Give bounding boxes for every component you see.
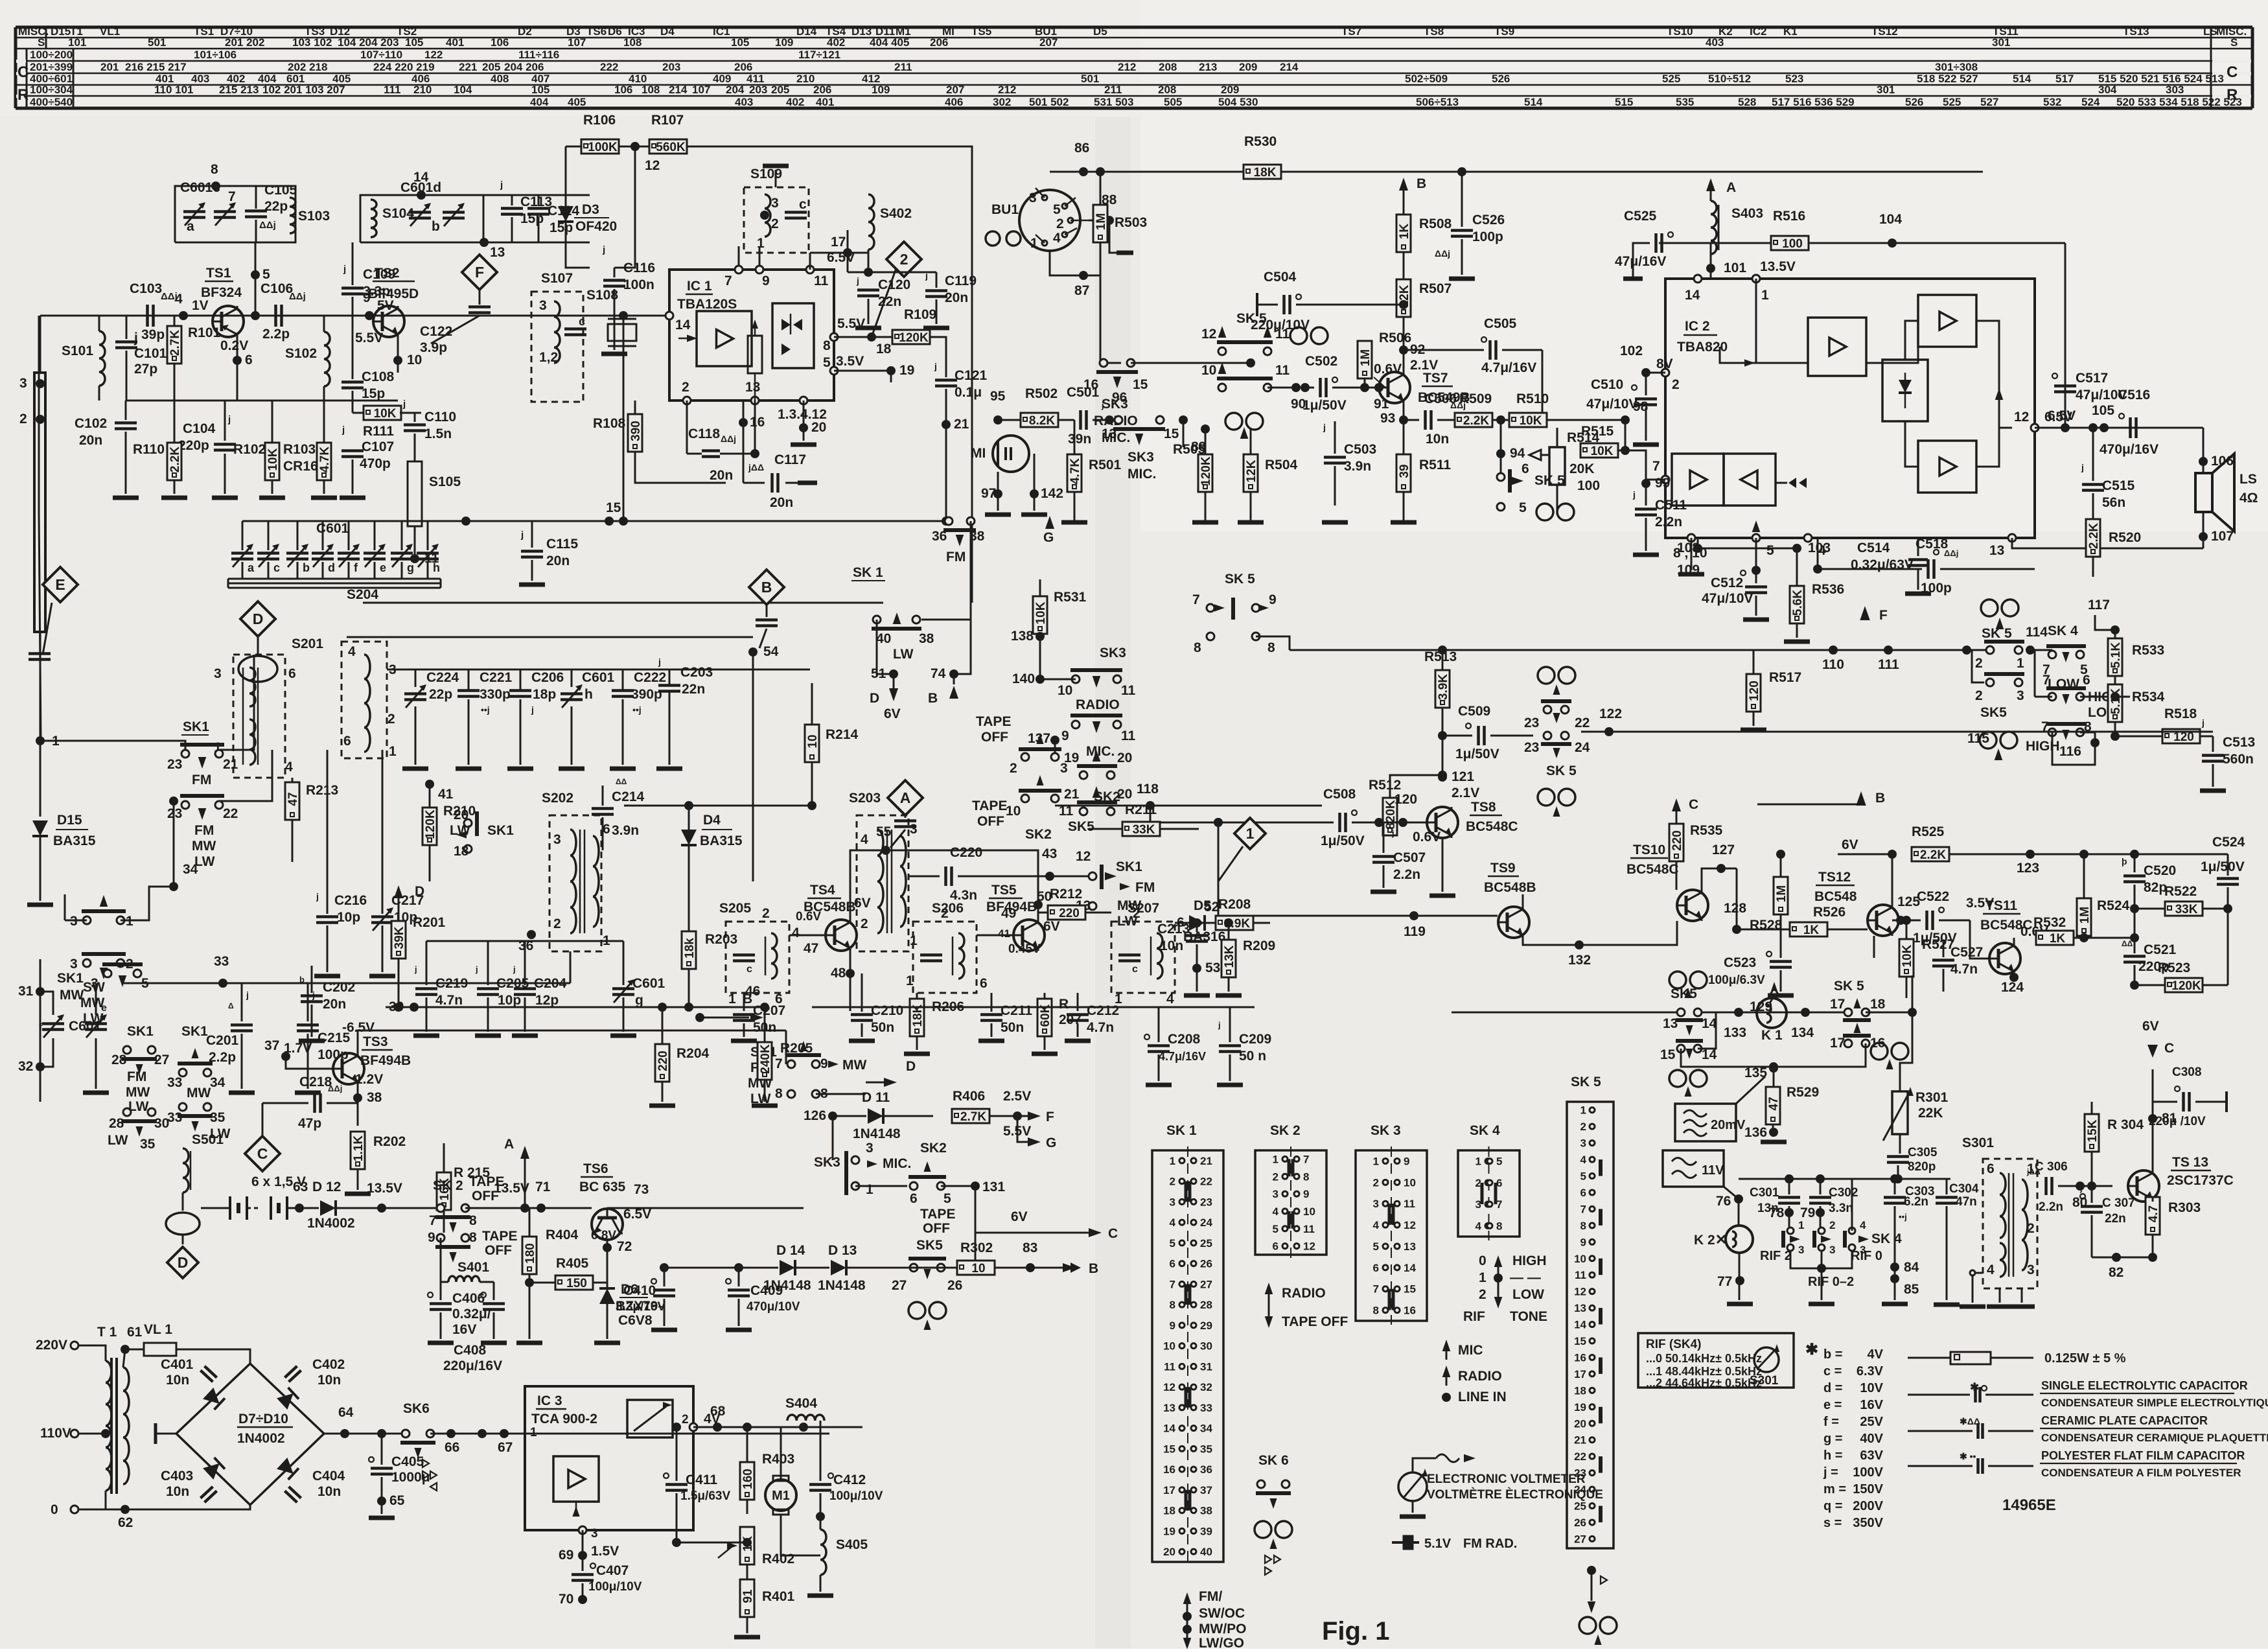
- capacitor C222: [612, 689, 634, 692]
- node 76: [1734, 1194, 1743, 1204]
- svg-text:0.1μ: 0.1μ: [955, 385, 982, 400]
- resistor R405: [555, 1275, 593, 1290]
- resistor R406: [952, 1109, 989, 1123]
- transistor TS6 BC635: [592, 1209, 623, 1240]
- svg-text:55: 55: [876, 824, 892, 839]
- bridge rectifier D7-D10: [176, 1364, 324, 1505]
- svg-text:TBA120S: TBA120S: [677, 297, 737, 312]
- wire 110 111: [1753, 649, 1990, 651]
- svg-text:D 12: D 12: [312, 1180, 341, 1194]
- svg-text:R517: R517: [1769, 670, 1801, 685]
- svg-text:••j: ••j: [1899, 1212, 1907, 1222]
- svg-text:209: 209: [1221, 84, 1239, 96]
- svg-text:h: h: [433, 561, 440, 574]
- svg-text:28: 28: [109, 1116, 124, 1131]
- svg-text:123: 123: [2017, 861, 2039, 876]
- svg-text:C501: C501: [1067, 385, 1100, 400]
- node 5: [251, 270, 260, 279]
- wire SK6 right: [430, 1433, 829, 1435]
- svg-text:33K: 33K: [2175, 903, 2198, 916]
- node 138: [1039, 634, 1041, 679]
- resistor R523: [2165, 978, 2203, 992]
- svg-text:11: 11: [1404, 1198, 1415, 1210]
- svg-text:470p: 470p: [360, 456, 391, 471]
- svg-text:100p: 100p: [1921, 581, 1952, 596]
- wire R503 down: [1100, 275, 1102, 363]
- svg-text:37: 37: [264, 1038, 279, 1053]
- capacitor C505: [1404, 349, 1484, 351]
- svg-text:K1: K1: [1783, 25, 1798, 38]
- resistor R208: [1216, 916, 1253, 930]
- resistor R534: [2114, 684, 2116, 686]
- capacitor C206: [509, 689, 531, 692]
- svg-text:BF494B: BF494B: [360, 1053, 411, 1068]
- node 17: [847, 230, 849, 272]
- svg-text:TONE: TONE: [1510, 1309, 1547, 1324]
- svg-text:33: 33: [167, 1110, 182, 1125]
- svg-text:B: B: [1417, 176, 1426, 191]
- svg-text:C409: C409: [750, 1283, 783, 1298]
- svg-text:C118: C118: [688, 426, 720, 441]
- svg-text:TAPE: TAPE: [920, 1207, 955, 1222]
- resistor R212: [1038, 913, 1048, 920]
- svg-text:g: g: [635, 993, 643, 1008]
- SK1 LW switch: [873, 616, 881, 623]
- svg-text:R501: R501: [1089, 458, 1122, 472]
- svg-text:14: 14: [1404, 1262, 1416, 1274]
- svg-text:240K: 240K: [759, 1044, 772, 1074]
- svg-text:207: 207: [1039, 36, 1058, 49]
- svg-text:3: 3: [539, 298, 547, 313]
- resistor R109: [872, 336, 893, 338]
- wire SK5 to C502: [1267, 387, 1296, 389]
- tuning box C601c/C105: [175, 186, 295, 242]
- svg-text:8V: 8V: [1656, 356, 1673, 371]
- tuning gang frame: [228, 578, 441, 580]
- svg-text:211: 211: [1104, 84, 1122, 96]
- svg-text:TS 13: TS 13: [2172, 1155, 2208, 1170]
- svg-text:10K: 10K: [374, 407, 397, 421]
- transistor TS3 BF494B: [333, 1053, 364, 1084]
- wire: [565, 146, 567, 268]
- svg-text:1.5μ/63V: 1.5μ/63V: [680, 1489, 730, 1503]
- svg-text:203: 203: [662, 61, 680, 73]
- wire node 12: [631, 142, 640, 151]
- capacitor C203: [658, 684, 680, 687]
- svg-text:2.1V: 2.1V: [1410, 358, 1438, 373]
- svg-text:3: 3: [1580, 1137, 1586, 1150]
- svg-text:110: 110: [1822, 657, 1844, 672]
- svg-text:D: D: [253, 611, 264, 627]
- svg-text:0.2V: 0.2V: [220, 338, 248, 353]
- svg-text:82p: 82p: [2144, 880, 2167, 895]
- capacitor C207: [743, 993, 745, 1011]
- svg-text:ELECTRONIC VOLTMETER: ELECTRONIC VOLTMETER: [1427, 1472, 1586, 1486]
- svg-text:C104: C104: [183, 421, 216, 436]
- svg-text:1K: 1K: [1803, 924, 1820, 937]
- svg-text:66: 66: [445, 1440, 459, 1455]
- svg-text:54: 54: [763, 644, 779, 659]
- svg-text:10n: 10n: [1160, 938, 1183, 953]
- svg-text:C406: C406: [452, 1291, 485, 1306]
- coil S403: [1711, 201, 1717, 215]
- svg-text:CONDENSATEUR A FILM POLYESTER: CONDENSATEUR A FILM POLYESTER: [2041, 1467, 2241, 1479]
- capacitor C410: [664, 1268, 665, 1286]
- IC2 pin13: [2008, 534, 2016, 542]
- svg-text:R511: R511: [1419, 458, 1451, 472]
- svg-text:2: 2: [682, 380, 689, 395]
- resistor R529: [1766, 1087, 1780, 1124]
- svg-text:C513: C513: [2223, 735, 2255, 750]
- SK3 arrows: [1442, 1340, 1451, 1351]
- svg-text:C105: C105: [264, 183, 297, 198]
- resistor R513: [1435, 670, 1450, 708]
- svg-text:R535: R535: [1690, 823, 1723, 838]
- capacitor C102: [125, 401, 127, 420]
- svg-text:403: 403: [735, 96, 753, 108]
- capacitor C105: [255, 186, 257, 209]
- svg-text:j: j: [934, 361, 937, 371]
- transistor TS12 BC548: [1868, 905, 1899, 936]
- svg-text:F: F: [475, 264, 484, 281]
- wire B rail left: [664, 1267, 732, 1269]
- svg-text:q =: q =: [1823, 1499, 1842, 1513]
- svg-text:3: 3: [1029, 191, 1037, 205]
- switch SK2 2-3: [1021, 753, 1029, 761]
- svg-text:ΔΔj: ΔΔj: [1435, 248, 1450, 259]
- svg-text:C510: C510: [1591, 377, 1623, 392]
- svg-text:M1: M1: [772, 1489, 790, 1503]
- resistor R515: [1580, 443, 1618, 458]
- svg-text:132: 132: [1568, 953, 1591, 968]
- resistor R522: [2165, 902, 2203, 916]
- wire 118 row: [1055, 805, 1322, 807]
- svg-text:2: 2: [1373, 1176, 1379, 1189]
- svg-text:108: 108: [642, 84, 660, 96]
- svg-text:R402: R402: [762, 1552, 794, 1566]
- svg-text:C302: C302: [1829, 1186, 1858, 1200]
- svg-text:B: B: [761, 579, 772, 596]
- svg-text:514: 514: [2013, 73, 2031, 85]
- diode D4 BA315: [681, 830, 697, 845]
- node 34: [169, 882, 178, 891]
- svg-text:208: 208: [1158, 84, 1176, 96]
- svg-text:4.7: 4.7: [2147, 1205, 2160, 1222]
- svg-text:1μ/50V: 1μ/50V: [1302, 398, 1347, 413]
- svg-text:C601: C601: [316, 521, 349, 536]
- svg-text:8: 8: [469, 1213, 477, 1228]
- wire SK3 to SK5: [1131, 362, 1251, 364]
- IC1 pin8: [830, 333, 838, 341]
- svg-text:R: R: [2227, 86, 2238, 104]
- svg-text:1N4148: 1N4148: [853, 1126, 901, 1141]
- svg-text:21: 21: [954, 417, 969, 432]
- svg-text:200V: 200V: [1853, 1499, 1883, 1513]
- svg-text:G: G: [1043, 530, 1054, 545]
- svg-text:401: 401: [446, 36, 464, 49]
- legend resistor: [1908, 1357, 1950, 1359]
- svg-text:D4: D4: [660, 25, 675, 38]
- svg-text:BC548C: BC548C: [1626, 862, 1679, 877]
- svg-text:4.7n: 4.7n: [1087, 1020, 1114, 1035]
- svg-text:4.7K: 4.7K: [318, 447, 332, 472]
- wire top right rail: [1050, 171, 1083, 173]
- svg-text:520 533 534 518 522 523: 520 533 534 518 522 523: [2116, 96, 2242, 108]
- svg-text:R: R: [17, 86, 29, 104]
- svg-text:R522: R522: [2164, 884, 2197, 899]
- svg-text:SK 1: SK 1: [1166, 1123, 1197, 1138]
- svg-text:R523: R523: [2158, 960, 2190, 975]
- svg-text:D2: D2: [518, 25, 532, 38]
- svg-text:MW/PO: MW/PO: [1199, 1622, 1247, 1636]
- svg-text:8: 8: [1267, 640, 1275, 655]
- svg-text:4: 4: [1170, 1216, 1176, 1229]
- svg-text:100μ/10V: 100μ/10V: [588, 1580, 642, 1594]
- svg-text:220: 220: [1059, 907, 1080, 920]
- svg-text:d =: d =: [1823, 1381, 1842, 1395]
- svg-text:1: 1: [1475, 1156, 1481, 1168]
- svg-text:R532: R532: [2033, 915, 2066, 930]
- svg-text:8: 8: [469, 1230, 477, 1245]
- svg-text:6.8V: 6.8V: [591, 1229, 616, 1242]
- wire 6V C: [975, 1232, 1050, 1234]
- wire MW out: [816, 1093, 866, 1095]
- svg-text:210: 210: [413, 84, 432, 96]
- IC1 pin13: [751, 397, 759, 404]
- svg-text:10n: 10n: [166, 1373, 189, 1388]
- svg-text:TS10: TS10: [1633, 843, 1665, 857]
- svg-text:3: 3: [2017, 688, 2024, 703]
- svg-text:D13: D13: [851, 25, 872, 38]
- svg-text:SK1: SK1: [1116, 859, 1142, 874]
- svg-text:13: 13: [745, 380, 760, 395]
- svg-text:22p: 22p: [429, 687, 452, 702]
- svg-text:2: 2: [1010, 761, 1017, 776]
- svg-text:8: 8: [1303, 1170, 1309, 1183]
- capacitor C511: [1645, 480, 1647, 506]
- svg-text:C110: C110: [424, 410, 456, 425]
- svg-text:LS: LS: [2239, 472, 2257, 487]
- svg-text:1: 1: [906, 973, 914, 988]
- svg-text:R520: R520: [2109, 530, 2141, 545]
- svg-text:10V: 10V: [1860, 1381, 1883, 1395]
- IC3 box: [525, 1386, 693, 1530]
- resistor R210: [422, 808, 437, 845]
- capacitor C302: [1820, 1179, 1822, 1194]
- svg-text:4: 4: [1053, 231, 1061, 246]
- svg-text:S402: S402: [880, 206, 912, 221]
- svg-text:3: 3: [591, 1527, 598, 1541]
- svg-text:j: j: [316, 891, 319, 902]
- svg-text:128: 128: [1724, 901, 1746, 916]
- svg-text:S109: S109: [750, 167, 782, 181]
- svg-text:TS8: TS8: [1471, 800, 1496, 815]
- svg-text:c: c: [273, 561, 280, 574]
- svg-text:3: 3: [1798, 1244, 1804, 1256]
- wire to R106: [566, 242, 590, 268]
- node 98: [1546, 419, 1625, 421]
- wire 6V rail TS12: [1838, 854, 1892, 855]
- svg-text:SK1: SK1: [57, 971, 84, 986]
- svg-text:107: 107: [568, 36, 586, 49]
- svg-text:38: 38: [919, 631, 934, 646]
- svg-text:TS6: TS6: [586, 25, 607, 38]
- svg-text:R502: R502: [1025, 386, 1058, 401]
- svg-text:7: 7: [2042, 673, 2050, 688]
- svg-text:105: 105: [2092, 403, 2114, 418]
- R532 box: [2036, 931, 2074, 945]
- svg-text:18: 18: [1574, 1384, 1586, 1397]
- coil S103: [290, 198, 295, 207]
- svg-text:1N4002: 1N4002: [237, 1431, 285, 1446]
- svg-text:124: 124: [2001, 980, 2024, 995]
- svg-text:304: 304: [2098, 84, 2117, 96]
- switch SK1 3-2: [83, 959, 91, 967]
- svg-text:C517: C517: [2076, 371, 2108, 386]
- wire 95-96 row: [998, 419, 1021, 421]
- svg-text:R509: R509: [1459, 391, 1492, 406]
- capacitor C405: [381, 1434, 383, 1465]
- svg-text:101: 101: [1724, 261, 1746, 275]
- svg-text:6: 6: [1170, 1258, 1175, 1270]
- svg-text:34: 34: [210, 1075, 226, 1090]
- svg-text:R203: R203: [705, 932, 737, 947]
- svg-text:10K: 10K: [266, 448, 280, 471]
- svg-text:517 516 536 529: 517 516 536 529: [1772, 96, 1855, 108]
- svg-text:SK 4: SK 4: [2048, 623, 2078, 638]
- svg-text:221: 221: [459, 61, 477, 73]
- svg-text:27: 27: [154, 1053, 169, 1067]
- svg-text:C410: C410: [623, 1283, 656, 1298]
- IC1 pin7: [738, 246, 740, 270]
- svg-text:3: 3: [1170, 1196, 1175, 1208]
- svg-text:20n: 20n: [710, 468, 733, 483]
- svg-text:14: 14: [1574, 1319, 1586, 1331]
- svg-text:1: 1: [2027, 1161, 2035, 1176]
- svg-text:1.5n: 1.5n: [424, 426, 452, 441]
- svg-text:63: 63: [293, 1180, 308, 1194]
- svg-text:C525: C525: [1624, 209, 1657, 224]
- wire 13.5V right: [382, 1207, 441, 1209]
- wire R507 up: [1403, 214, 1405, 279]
- svg-text:TS12: TS12: [1818, 870, 1851, 885]
- svg-text:63V: 63V: [1860, 1448, 1883, 1463]
- svg-text:302: 302: [993, 96, 1011, 108]
- svg-text:R 304: R 304: [2107, 1117, 2144, 1132]
- svg-text:1: 1: [1373, 1155, 1379, 1167]
- svg-text:j: j: [2081, 462, 2084, 472]
- svg-text:C412: C412: [833, 1472, 866, 1487]
- svg-text:j: j: [227, 414, 231, 425]
- svg-text:85: 85: [1904, 1282, 1919, 1297]
- capacitor C121: [945, 363, 947, 377]
- svg-text:ΔΔj: ΔΔj: [328, 1084, 342, 1093]
- svg-text:2: 2: [19, 412, 27, 426]
- svg-text:a: a: [248, 561, 255, 574]
- svg-text:C115: C115: [546, 537, 578, 552]
- svg-text:222: 222: [600, 61, 618, 73]
- svg-text:C212: C212: [1087, 1003, 1119, 1018]
- capacitor C502: [1305, 387, 1314, 389]
- relay K1: [1757, 998, 1787, 1028]
- svg-text:ϸ: ϸ: [299, 975, 305, 984]
- svg-text:1: 1: [530, 1426, 537, 1439]
- svg-text:517: 517: [2055, 73, 2074, 85]
- node 119 row: [1218, 822, 1498, 916]
- svg-text:16V: 16V: [452, 1322, 476, 1337]
- node 9: [365, 311, 374, 320]
- svg-text:47: 47: [286, 792, 300, 806]
- svg-text:...2 44.64kHz± 0.5kHz: ...2 44.64kHz± 0.5kHz: [1646, 1377, 1762, 1390]
- svg-text:114: 114: [2026, 625, 2048, 640]
- svg-text:94: 94: [1510, 446, 1525, 461]
- svg-text:j: j: [1101, 401, 1104, 410]
- switch SK1 3-1: [83, 916, 91, 924]
- microphone MI: [993, 436, 1029, 472]
- svg-text:2.2K: 2.2K: [2087, 523, 2101, 549]
- wire SK1 fm out: [219, 655, 254, 750]
- switch table SK2: [1255, 1150, 1326, 1255]
- svg-text:R201: R201: [413, 915, 446, 930]
- svg-text:77: 77: [1717, 1274, 1732, 1289]
- capacitor C504: [1257, 304, 1278, 306]
- svg-text:11: 11: [1164, 1360, 1175, 1373]
- svg-text:17: 17: [1574, 1368, 1586, 1380]
- node 69: [582, 1530, 584, 1555]
- svg-text:50n: 50n: [1001, 1020, 1024, 1035]
- IC1 inner res: [748, 336, 762, 373]
- svg-text:29: 29: [1200, 1320, 1212, 1332]
- svg-text:87: 87: [1074, 283, 1089, 298]
- svg-text:14: 14: [1163, 1423, 1175, 1435]
- svg-text:D 11: D 11: [862, 1090, 890, 1105]
- svg-text:1: 1: [52, 734, 60, 749]
- svg-text:SK5: SK5: [1068, 819, 1094, 834]
- svg-text:IC 2: IC 2: [1685, 319, 1710, 334]
- svg-text:RIF 2: RIF 2: [1760, 1249, 1792, 1263]
- svg-text:20: 20: [1574, 1417, 1586, 1430]
- wire TS12 emitter: [1873, 936, 1875, 958]
- capacitor C209: [1229, 1007, 1231, 1042]
- svg-text:b: b: [303, 561, 310, 574]
- wire rail to R530: [1083, 171, 1244, 173]
- svg-text:2.2K: 2.2K: [1920, 848, 1946, 862]
- node 48: [846, 969, 855, 978]
- resistor R512: [1383, 798, 1397, 835]
- switch table SK1: [1152, 1150, 1223, 1562]
- switch SK5 23-22: [1544, 706, 1551, 714]
- wire TS7 emitter: [1403, 403, 1405, 420]
- svg-text:102 201 103 207: 102 201 103 207: [262, 84, 345, 96]
- wire S202 top: [570, 951, 572, 983]
- svg-text:C511: C511: [1655, 498, 1687, 513]
- svg-text:R516: R516: [1773, 209, 1805, 224]
- svg-text:32: 32: [18, 1059, 33, 1074]
- svg-text:9: 9: [1061, 728, 1069, 743]
- node 107: [2203, 512, 2204, 548]
- svg-text:R111: R111: [363, 424, 394, 439]
- svg-text:R530: R530: [1244, 134, 1277, 149]
- svg-text:53: 53: [1205, 960, 1220, 975]
- node 77: [1739, 1253, 1741, 1300]
- capacitor C501: [1079, 410, 1082, 430]
- svg-text:LW: LW: [108, 1133, 128, 1148]
- svg-text:7: 7: [724, 273, 732, 288]
- svg-text:OFF: OFF: [981, 730, 1008, 745]
- node 103: [1693, 544, 1702, 553]
- svg-text:10: 10: [1303, 1205, 1315, 1218]
- svg-text:c =: c =: [1823, 1364, 1842, 1379]
